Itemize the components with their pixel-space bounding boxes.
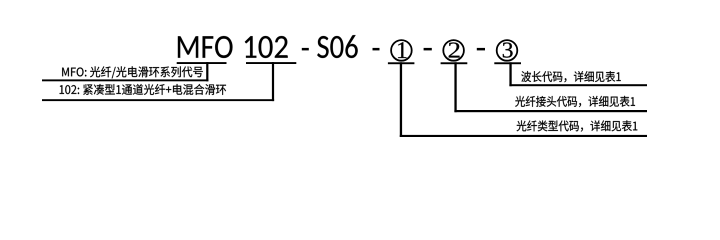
vertical wire from MFO underline to callout line 1 (206, 62, 208, 81)
vertical wire from circle 2 underline to connector callout line (454, 62, 456, 112)
fiber connector callout line (circle 2) (454, 110, 647, 112)
callout text: fiber type code, see table 1 (517, 120, 638, 131)
hyphen between 102 and S06 (302, 48, 309, 51)
underline under circle 3 (494, 62, 521, 64)
title text 102 (245, 36, 288, 58)
circled number 3 (497, 40, 518, 61)
callout line 2 (102 compact type) (42, 99, 274, 101)
callout text: MFO: fiber/opto-electric slip ring series code (62, 66, 203, 78)
callout line 1 (MFO series) (42, 79, 208, 81)
hyphen between circle 2 and circle 3 (477, 48, 485, 51)
title text MFO (178, 36, 233, 58)
underline under 102 (246, 62, 296, 64)
callout text: 102: compact 1-channel fiber + electrical hybrid slip ring (60, 84, 226, 95)
title text S06 (317, 35, 358, 58)
underline under MFO (177, 62, 227, 64)
circled number 2 (443, 40, 464, 61)
circled number 1 (391, 40, 412, 61)
wavelength callout line (circle 3) (509, 84, 647, 86)
vertical wire from circle 1 underline to fiber-type callout line (400, 62, 402, 137)
callout text: fiber connector code, see table 1 (515, 96, 635, 107)
callout text: wavelength code, see table 1 (521, 71, 620, 82)
vertical wire from circle 3 underline to wavelength callout line (509, 62, 511, 86)
underline under circle 2 (441, 62, 468, 64)
hyphen between S06 and circle 1 (373, 48, 380, 51)
hyphen between circle 1 and circle 2 (424, 48, 432, 51)
fiber type callout line (circle 1) (400, 135, 647, 137)
vertical wire from 102 underline to callout line 2 (272, 62, 274, 101)
underline under circle 1 (388, 62, 415, 64)
